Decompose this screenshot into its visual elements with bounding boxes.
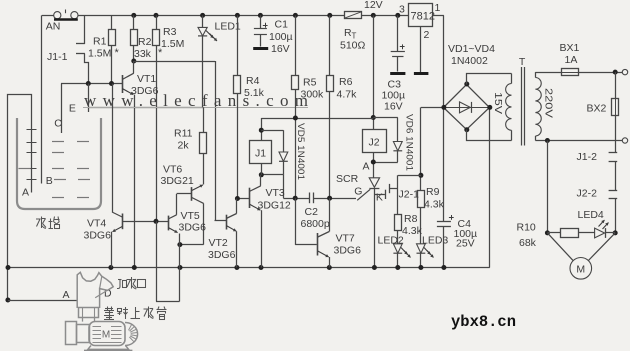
transistor VT3 <box>249 188 251 208</box>
svg-text:3DG6: 3DG6 <box>208 249 236 261</box>
SCR gate diagonal <box>357 189 370 200</box>
watermark underline <box>83 107 308 109</box>
pump base <box>88 346 129 350</box>
transformer T primary 220V winding <box>535 78 541 137</box>
svg-text:220V: 220V <box>543 88 554 118</box>
svg-text:1N4002: 1N4002 <box>451 55 488 67</box>
svg-text:AN: AN <box>46 21 61 33</box>
resistor R11 <box>203 107 205 132</box>
wire VT1 collector to VT2 base column <box>131 59 136 64</box>
svg-text:T: T <box>519 56 526 68</box>
water inlet funnel <box>77 272 113 308</box>
svg-text:J1: J1 <box>255 148 266 160</box>
capacitor C1 <box>258 13 263 18</box>
wire R5 to VT7 base <box>295 198 297 245</box>
svg-text:510Ω: 510Ω <box>340 40 366 52</box>
svg-text:1.5M: 1.5M <box>161 38 184 50</box>
svg-text:R3: R3 <box>163 26 177 38</box>
capacitor C3 <box>395 13 400 18</box>
svg-text:16V: 16V <box>384 101 403 113</box>
wire J1 bottom to VT3 <box>261 163 263 174</box>
wire mains bottom <box>535 140 622 142</box>
svg-text:M: M <box>102 330 110 341</box>
transistor VT2 <box>226 215 228 230</box>
probe A ticks <box>27 129 37 131</box>
water dashes <box>52 141 64 143</box>
svg-text:VT1: VT1 <box>137 73 156 85</box>
svg-text:C2: C2 <box>305 206 319 218</box>
svg-text:100µ: 100µ <box>269 31 293 43</box>
bridge rectifier VD1-VD4 <box>444 85 490 130</box>
svg-text:3DG6: 3DG6 <box>179 222 207 234</box>
resistor R2 <box>131 13 136 18</box>
wire bridge AC bottom to transformer <box>467 130 512 141</box>
node C probe wire <box>61 84 63 134</box>
resistor R9 <box>418 191 425 208</box>
svg-text:R4: R4 <box>246 75 260 87</box>
svg-text:J2: J2 <box>369 137 380 149</box>
resistor R3 <box>154 13 159 18</box>
transistor VT4 <box>122 214 124 230</box>
svg-text:R8: R8 <box>404 213 418 225</box>
wire SCR cathode to ground <box>374 188 376 268</box>
svg-text:M: M <box>576 264 585 276</box>
svg-text:VD6 1N4001: VD6 1N4001 <box>404 114 415 171</box>
capacitor C4 <box>443 107 445 221</box>
relay coil J1 <box>250 141 272 164</box>
resistor R8 <box>395 215 402 231</box>
svg-text:3DG6: 3DG6 <box>84 230 112 242</box>
pump fan cover <box>125 323 138 346</box>
label suliao shangshuiguan plastic pipe <box>105 308 113 310</box>
node E probe wire <box>88 84 90 113</box>
wire 7812 pin1 to bridge <box>433 15 444 17</box>
svg-text:15V: 15V <box>492 92 503 114</box>
label jiashuikou water inlet <box>118 279 122 281</box>
svg-text:J2-1: J2-1 <box>399 189 420 201</box>
resistor R6 <box>327 13 332 18</box>
svg-text:R5: R5 <box>303 77 317 89</box>
svg-text:25V: 25V <box>456 238 475 250</box>
node A probe wire loop to ground <box>8 95 32 302</box>
wire probe rail C/E/R1 to VT1 base <box>61 83 122 85</box>
wire 12V top rail <box>42 15 54 17</box>
svg-text:2: 2 <box>424 29 430 41</box>
svg-text:A: A <box>22 187 29 199</box>
svg-text:LED4: LED4 <box>578 209 604 221</box>
svg-text:68k: 68k <box>519 237 537 249</box>
svg-text:2k: 2k <box>178 140 190 152</box>
pipe coupling <box>79 308 99 318</box>
label shuita water tower <box>41 217 43 229</box>
relay contact J2-1 <box>374 194 385 196</box>
wire VT1 emitter to R11 top <box>88 107 203 109</box>
wire H1 feed line <box>261 118 373 120</box>
svg-text:3DG6: 3DG6 <box>334 245 362 257</box>
transistor VT1 <box>122 75 124 93</box>
water tower tank <box>17 118 101 209</box>
svg-text:LED2: LED2 <box>378 235 404 247</box>
svg-text:1: 1 <box>435 2 441 14</box>
diode VD6 1N4001 <box>373 117 398 119</box>
svg-text:G: G <box>354 186 362 198</box>
svg-text:3: 3 <box>399 4 405 16</box>
wire ground rail up to bridge negative <box>489 107 491 267</box>
svg-text:ybx8.cn: ybx8.cn <box>451 313 516 331</box>
svg-text:VT4: VT4 <box>87 218 106 230</box>
wire 12V to J2 <box>371 13 376 18</box>
svg-text:*: * <box>115 47 120 59</box>
svg-text:B: B <box>46 175 53 187</box>
resistor R10 <box>561 229 579 238</box>
svg-text:*: * <box>158 47 163 59</box>
relay contact J2-2 <box>609 190 618 192</box>
svg-text:K: K <box>376 192 383 204</box>
svg-text:4.3k: 4.3k <box>424 199 445 211</box>
svg-text:12V: 12V <box>364 0 383 11</box>
wire probe D to pipe <box>156 301 180 303</box>
svg-text:3DG12: 3DG12 <box>258 200 291 212</box>
svg-text:VT6: VT6 <box>163 164 182 176</box>
svg-text:VT2: VT2 <box>209 237 228 249</box>
fuse BX2 <box>615 72 617 98</box>
svg-text:BX2: BX2 <box>587 103 607 115</box>
LED LED1 <box>200 13 205 18</box>
pump motor body <box>66 322 77 345</box>
svg-text:R9: R9 <box>426 186 440 198</box>
relay coil J2 <box>363 130 387 153</box>
wire C2 node line <box>283 198 310 200</box>
svg-text:VD5 1N4001: VD5 1N4001 <box>295 123 306 180</box>
svg-text:LED3: LED3 <box>422 235 448 247</box>
svg-text:33k: 33k <box>134 48 152 60</box>
fuse BX1 <box>535 72 561 74</box>
resistor RT 510ohm <box>345 12 362 19</box>
transistor VT5 <box>168 216 170 231</box>
svg-text:VT7: VT7 <box>336 233 355 245</box>
svg-text:J1-1: J1-1 <box>47 51 68 63</box>
svg-text:1.5M: 1.5M <box>88 48 111 60</box>
transistor VT6 <box>191 187 193 201</box>
diode VD5 1N4001 <box>261 130 283 132</box>
resistor R1 <box>111 15 113 29</box>
svg-text:3DG21: 3DG21 <box>161 175 194 187</box>
svg-text:BX1: BX1 <box>560 42 580 54</box>
relay contact J1-2 <box>615 115 617 153</box>
resistor R5 <box>293 13 298 18</box>
svg-text:R10: R10 <box>517 222 536 234</box>
svg-text:E: E <box>69 103 76 115</box>
svg-text:7812: 7812 <box>411 11 435 23</box>
svg-text:VT5: VT5 <box>181 210 200 222</box>
wire 7812 pin2 ground <box>420 27 422 73</box>
capacitor C2 <box>309 193 311 204</box>
svg-text:1A: 1A <box>565 54 578 66</box>
pushbutton AN <box>54 12 61 19</box>
wire J2 to SCR anode <box>373 153 375 178</box>
thyristor SCR <box>369 178 379 188</box>
svg-text:4.3k: 4.3k <box>402 225 423 237</box>
svg-text:A: A <box>363 161 370 173</box>
svg-text:A: A <box>63 289 70 301</box>
motor M <box>570 258 592 280</box>
svg-text:VD1~VD4: VD1~VD4 <box>448 43 495 55</box>
wire gate line <box>330 198 356 200</box>
regulator U 7812 <box>409 4 433 27</box>
svg-text:6800p: 6800p <box>301 218 330 230</box>
LED LED4 <box>595 228 605 238</box>
svg-text:16V: 16V <box>271 43 290 55</box>
transistor VT7 <box>317 233 319 256</box>
svg-text:VT3: VT3 <box>266 187 285 199</box>
wire bridge positive to R9/R8 <box>421 107 444 109</box>
svg-text:R2: R2 <box>138 36 152 48</box>
relay contact J1-1 <box>84 15 86 44</box>
wire ground to pump pipe <box>5 298 10 303</box>
svg-text:R6: R6 <box>339 76 353 88</box>
svg-text:J1-2: J1-2 <box>577 151 598 163</box>
svg-text:J2-2: J2-2 <box>577 188 598 200</box>
transformer T secondary 15V winding <box>506 84 512 131</box>
LED LED2 <box>393 244 402 253</box>
wire motor branch <box>547 141 549 233</box>
svg-text:4.7k: 4.7k <box>337 89 358 101</box>
LED LED3 <box>417 244 426 253</box>
node B probe wire (from AN) <box>41 15 43 183</box>
wire ground rail <box>8 267 490 269</box>
wire bridge AC top to transformer <box>467 74 512 85</box>
svg-text:C1: C1 <box>275 19 289 31</box>
resistor R4 <box>235 13 240 18</box>
svg-text:SCR: SCR <box>336 173 359 185</box>
wire probe D column <box>156 221 158 301</box>
svg-text:R11: R11 <box>174 128 193 140</box>
svg-text:R1: R1 <box>93 36 107 48</box>
transformer core <box>521 67 523 146</box>
svg-text:C: C <box>54 118 62 130</box>
